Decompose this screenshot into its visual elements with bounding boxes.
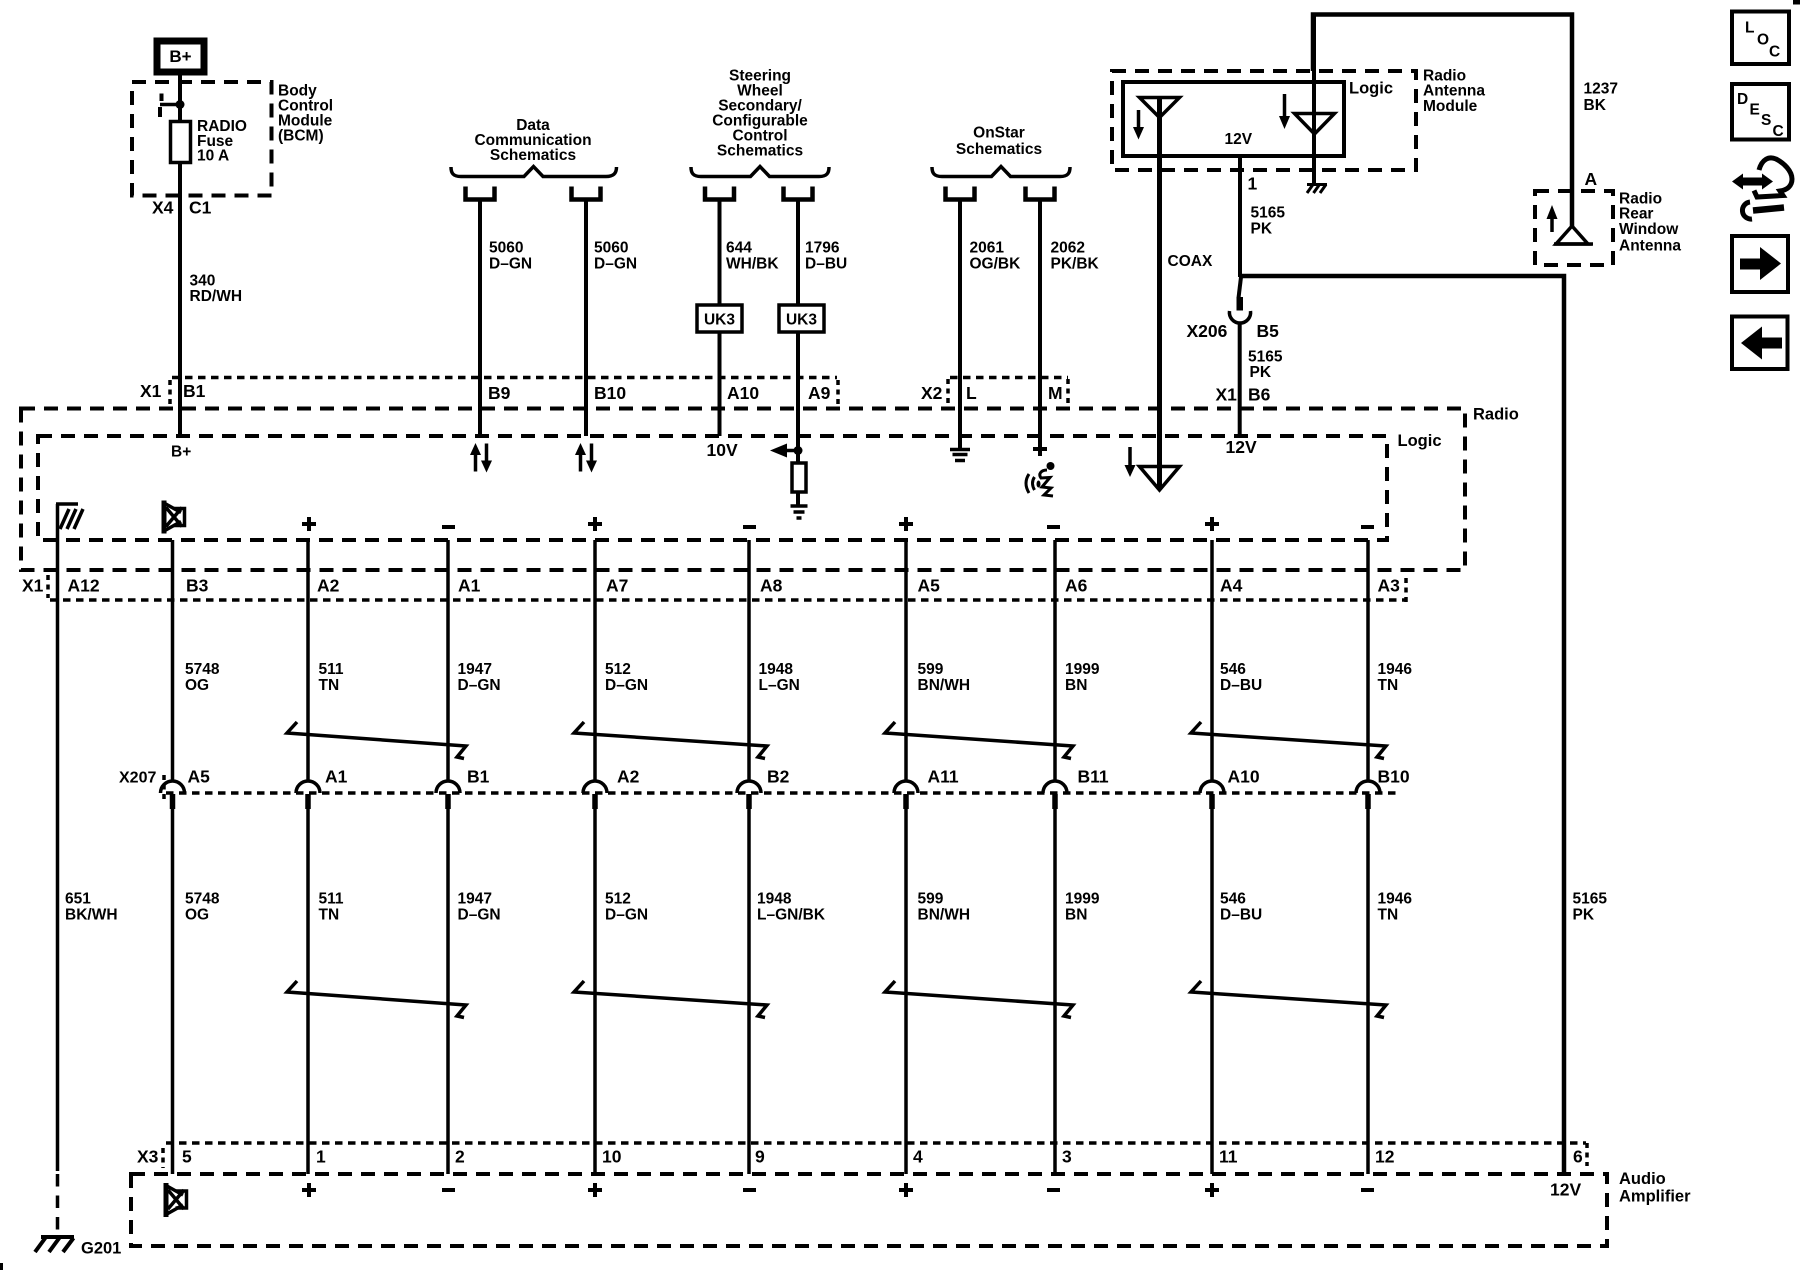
svg-text:X1: X1 bbox=[22, 576, 44, 596]
svg-text:PK: PK bbox=[1251, 221, 1273, 238]
svg-text:Schematics: Schematics bbox=[490, 147, 576, 164]
svg-text:A5: A5 bbox=[188, 767, 211, 787]
svg-text:B2: B2 bbox=[767, 767, 790, 787]
svg-text:M: M bbox=[1048, 383, 1063, 403]
svg-text:11: 11 bbox=[1219, 1147, 1238, 1167]
svg-text:B6: B6 bbox=[1248, 385, 1271, 405]
svg-text:D–GN: D–GN bbox=[458, 677, 501, 694]
svg-text:Module: Module bbox=[1423, 98, 1478, 115]
svg-text:1947: 1947 bbox=[458, 891, 492, 908]
svg-text:12V: 12V bbox=[1226, 437, 1257, 457]
svg-text:Window: Window bbox=[1619, 221, 1679, 238]
svg-text:5165: 5165 bbox=[1248, 349, 1283, 366]
svg-text:9: 9 bbox=[755, 1147, 765, 1167]
svg-text:340: 340 bbox=[190, 273, 216, 290]
svg-text:TN: TN bbox=[1378, 677, 1399, 694]
svg-text:Radio: Radio bbox=[1473, 406, 1519, 424]
svg-text:A1: A1 bbox=[325, 767, 348, 787]
svg-text:BK/WH: BK/WH bbox=[65, 907, 118, 924]
svg-text:B5: B5 bbox=[1257, 321, 1280, 341]
svg-text:B+: B+ bbox=[169, 47, 191, 66]
svg-text:A10: A10 bbox=[727, 383, 759, 403]
svg-text:X207: X207 bbox=[119, 770, 156, 787]
svg-text:BN/WH: BN/WH bbox=[918, 907, 971, 924]
svg-text:A9: A9 bbox=[808, 383, 831, 403]
svg-text:546: 546 bbox=[1220, 891, 1246, 908]
svg-text:D–BU: D–BU bbox=[805, 256, 847, 273]
svg-text:Logic: Logic bbox=[1349, 80, 1393, 98]
svg-text:B11: B11 bbox=[1078, 767, 1109, 787]
svg-text:5060: 5060 bbox=[489, 240, 523, 257]
svg-text:Schematics: Schematics bbox=[717, 143, 803, 160]
svg-text:A11: A11 bbox=[928, 767, 959, 787]
svg-text:4: 4 bbox=[913, 1147, 923, 1167]
svg-text:X206: X206 bbox=[1187, 321, 1228, 341]
svg-text:TN: TN bbox=[319, 677, 340, 694]
svg-text:1947: 1947 bbox=[458, 661, 492, 678]
svg-text:B9: B9 bbox=[488, 383, 511, 403]
svg-text:B10: B10 bbox=[1378, 767, 1410, 787]
svg-text:B+: B+ bbox=[171, 444, 191, 461]
svg-text:L–GN/BK: L–GN/BK bbox=[757, 907, 826, 924]
svg-text:1237: 1237 bbox=[1584, 81, 1618, 98]
svg-text:Antenna: Antenna bbox=[1619, 238, 1681, 255]
svg-text:5060: 5060 bbox=[594, 240, 628, 257]
svg-text:BK: BK bbox=[1584, 97, 1607, 114]
svg-text:Audio: Audio bbox=[1619, 1170, 1666, 1188]
svg-text:D–BU: D–BU bbox=[1220, 907, 1262, 924]
svg-text:5165: 5165 bbox=[1573, 891, 1608, 908]
svg-text:1796: 1796 bbox=[805, 240, 840, 257]
svg-text:D–GN: D–GN bbox=[605, 907, 648, 924]
svg-text:599: 599 bbox=[918, 891, 944, 908]
svg-text:A6: A6 bbox=[1065, 576, 1088, 596]
svg-text:D–GN: D–GN bbox=[605, 677, 648, 694]
svg-text:L–GN: L–GN bbox=[759, 677, 800, 694]
svg-text:10V: 10V bbox=[707, 440, 738, 460]
svg-text:C1: C1 bbox=[189, 198, 212, 218]
svg-text:C: C bbox=[1773, 123, 1784, 140]
svg-text:UK3: UK3 bbox=[786, 312, 817, 329]
svg-text:1999: 1999 bbox=[1065, 661, 1100, 678]
svg-text:A3: A3 bbox=[1378, 576, 1401, 596]
svg-text:5165: 5165 bbox=[1251, 205, 1286, 222]
svg-text:1946: 1946 bbox=[1378, 891, 1413, 908]
svg-text:D–GN: D–GN bbox=[489, 256, 532, 273]
svg-text:1946: 1946 bbox=[1378, 661, 1413, 678]
svg-text:X1: X1 bbox=[140, 381, 162, 401]
svg-text:E: E bbox=[1750, 102, 1760, 119]
svg-text:5748: 5748 bbox=[185, 661, 220, 678]
svg-text:2: 2 bbox=[455, 1147, 465, 1167]
svg-text:A10: A10 bbox=[1228, 767, 1260, 787]
svg-text:BN/WH: BN/WH bbox=[918, 677, 971, 694]
svg-text:12V: 12V bbox=[1225, 131, 1253, 148]
svg-text:BN: BN bbox=[1065, 907, 1087, 924]
svg-text:COAX: COAX bbox=[1168, 253, 1213, 270]
svg-text:A7: A7 bbox=[606, 576, 628, 596]
svg-text:RD/WH: RD/WH bbox=[190, 288, 243, 305]
svg-text:A2: A2 bbox=[317, 576, 340, 596]
svg-text:O: O bbox=[1757, 32, 1769, 49]
svg-text:511: 511 bbox=[319, 661, 344, 678]
svg-text:6: 6 bbox=[1573, 1147, 1583, 1167]
svg-text:2061: 2061 bbox=[970, 240, 1005, 257]
svg-text:644: 644 bbox=[726, 240, 752, 257]
svg-text:D: D bbox=[1737, 91, 1748, 108]
svg-text:UK3: UK3 bbox=[704, 312, 735, 329]
svg-text:10 A: 10 A bbox=[197, 148, 229, 165]
svg-text:1948: 1948 bbox=[757, 891, 792, 908]
svg-text:1: 1 bbox=[316, 1147, 326, 1167]
svg-text:10: 10 bbox=[602, 1147, 622, 1167]
svg-text:599: 599 bbox=[918, 661, 944, 678]
svg-text:PK: PK bbox=[1573, 907, 1595, 924]
svg-text:OG/BK: OG/BK bbox=[970, 256, 1022, 273]
svg-text:A4: A4 bbox=[1220, 576, 1243, 596]
svg-text:TN: TN bbox=[1378, 907, 1399, 924]
svg-text:512: 512 bbox=[605, 661, 631, 678]
svg-text:G201: G201 bbox=[81, 1240, 121, 1258]
svg-text:B1: B1 bbox=[467, 767, 490, 787]
svg-text:1999: 1999 bbox=[1065, 891, 1100, 908]
svg-text:OG: OG bbox=[185, 677, 209, 694]
svg-text:D–BU: D–BU bbox=[1220, 677, 1262, 694]
svg-text:WH/BK: WH/BK bbox=[726, 256, 779, 273]
svg-text:12V: 12V bbox=[1550, 1180, 1581, 1200]
svg-text:Logic: Logic bbox=[1398, 432, 1442, 450]
svg-text:Amplifier: Amplifier bbox=[1619, 1188, 1691, 1206]
svg-text:A1: A1 bbox=[458, 576, 481, 596]
svg-text:BN: BN bbox=[1065, 677, 1087, 694]
svg-text:1948: 1948 bbox=[759, 661, 794, 678]
svg-text:A5: A5 bbox=[918, 576, 941, 596]
svg-text:512: 512 bbox=[605, 891, 631, 908]
svg-text:546: 546 bbox=[1220, 661, 1246, 678]
svg-text:PK/BK: PK/BK bbox=[1051, 256, 1100, 273]
svg-text:12: 12 bbox=[1375, 1147, 1395, 1167]
svg-text:OG: OG bbox=[185, 907, 209, 924]
svg-text:D–GN: D–GN bbox=[458, 907, 501, 924]
svg-text:B3: B3 bbox=[186, 576, 209, 596]
svg-text:651: 651 bbox=[65, 891, 91, 908]
svg-text:X4: X4 bbox=[152, 198, 174, 218]
svg-text:X2: X2 bbox=[921, 383, 943, 403]
svg-text:(BCM): (BCM) bbox=[278, 128, 324, 145]
svg-text:PK: PK bbox=[1250, 364, 1272, 381]
svg-text:X3: X3 bbox=[137, 1147, 159, 1167]
svg-text:5: 5 bbox=[182, 1147, 192, 1167]
svg-text:511: 511 bbox=[319, 891, 344, 908]
svg-text:B1: B1 bbox=[183, 381, 206, 401]
svg-text:D–GN: D–GN bbox=[594, 256, 637, 273]
svg-text:2062: 2062 bbox=[1051, 240, 1085, 257]
svg-text:Antenna: Antenna bbox=[1423, 83, 1485, 100]
svg-text:C: C bbox=[1769, 44, 1780, 61]
svg-text:A: A bbox=[1585, 169, 1598, 189]
svg-text:5748: 5748 bbox=[185, 891, 220, 908]
svg-text:A2: A2 bbox=[617, 767, 640, 787]
svg-text:3: 3 bbox=[1062, 1147, 1072, 1167]
svg-text:1: 1 bbox=[1248, 174, 1258, 194]
svg-text:A8: A8 bbox=[760, 576, 783, 596]
svg-text:L: L bbox=[1745, 20, 1754, 37]
svg-text:A12: A12 bbox=[68, 576, 100, 596]
svg-text:X1: X1 bbox=[1216, 385, 1238, 405]
svg-text:Schematics: Schematics bbox=[956, 141, 1042, 158]
svg-text:S: S bbox=[1761, 112, 1771, 129]
svg-text:TN: TN bbox=[319, 907, 340, 924]
svg-text:B10: B10 bbox=[594, 383, 626, 403]
svg-text:L: L bbox=[966, 383, 977, 403]
svg-text:Rear: Rear bbox=[1619, 206, 1653, 223]
svg-text:OnStar: OnStar bbox=[973, 125, 1025, 142]
